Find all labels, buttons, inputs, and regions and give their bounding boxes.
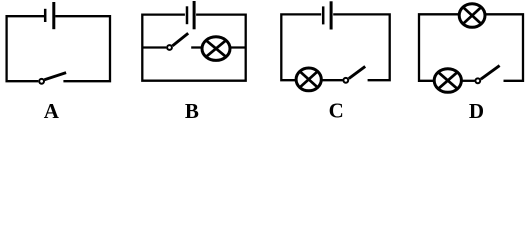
battery A: short (negative) plate <box>44 9 47 22</box>
lamp C: cross stroke 2 <box>299 71 318 88</box>
battery C: long (positive) plate <box>330 1 333 29</box>
switch A: open lever arm <box>44 73 66 80</box>
lamp B: cross stroke 1 <box>206 40 227 57</box>
lamp D1 (top): cross stroke 1 <box>463 7 482 24</box>
switch A: pivot circle <box>39 79 44 84</box>
lamp D1 (top): bulb ellipse <box>459 4 485 28</box>
lamp D2 (bottom): bulb ellipse <box>434 69 461 93</box>
lamp D1 (top): cross stroke 2 <box>463 7 482 24</box>
switch C: pivot circle <box>343 78 348 83</box>
wire: circuit B middle branch segment between switch and lamp <box>191 46 203 48</box>
lamp B: cross stroke 2 <box>206 40 227 57</box>
lamp B: bulb ellipse <box>202 37 230 61</box>
svg-text:C: C <box>329 99 344 123</box>
lamp D2 (bottom): cross stroke 2 <box>438 72 458 89</box>
battery B: long (positive) plate <box>193 1 196 29</box>
battery C: short (negative) plate <box>322 6 325 24</box>
wire: circuit D loop right side (top lamp to switch contact) <box>486 14 523 81</box>
switch D: pivot circle <box>475 78 480 83</box>
wire: circuit B middle branch left segment (left edge to switch pivot) <box>142 46 166 48</box>
battery B: short (negative) plate <box>186 6 189 24</box>
wire: circuit D loop left side (top lamp to bottom lamp) <box>419 14 461 81</box>
wire: circuit B outer loop top-left segment (left edge down to bottom) <box>142 15 245 81</box>
switch C: open lever arm <box>349 66 365 78</box>
lamp D2 (bottom): cross stroke 1 <box>438 72 458 89</box>
svg-text:D: D <box>469 99 484 123</box>
switch B: pivot circle <box>167 45 172 50</box>
wire: circuit C loop left side (battery negative plate down to lamp) <box>281 14 321 80</box>
battery A: long (positive) plate <box>52 2 55 29</box>
lamp C: cross stroke 1 <box>299 71 318 88</box>
switch D: open lever arm <box>481 66 500 80</box>
wire: circuit B middle branch right segment (lamp to right edge) <box>230 46 246 48</box>
wire: circuit A loop right side (battery positive plate to switch contact) <box>55 16 110 81</box>
wire: circuit D bottom segment between lamp and switch pivot <box>461 80 475 82</box>
svg-text:A: A <box>44 99 60 123</box>
wire: circuit A loop left side (battery negative plate to switch pivot) <box>7 16 45 81</box>
svg-text:B: B <box>185 99 199 123</box>
wire: circuit C bottom segment between lamp and switch pivot <box>320 79 342 81</box>
lamp C: bulb ellipse <box>296 68 321 91</box>
wire: circuit C loop right side (battery positive plate down to switch contact) <box>333 14 390 80</box>
switch B: open lever arm <box>172 33 188 46</box>
